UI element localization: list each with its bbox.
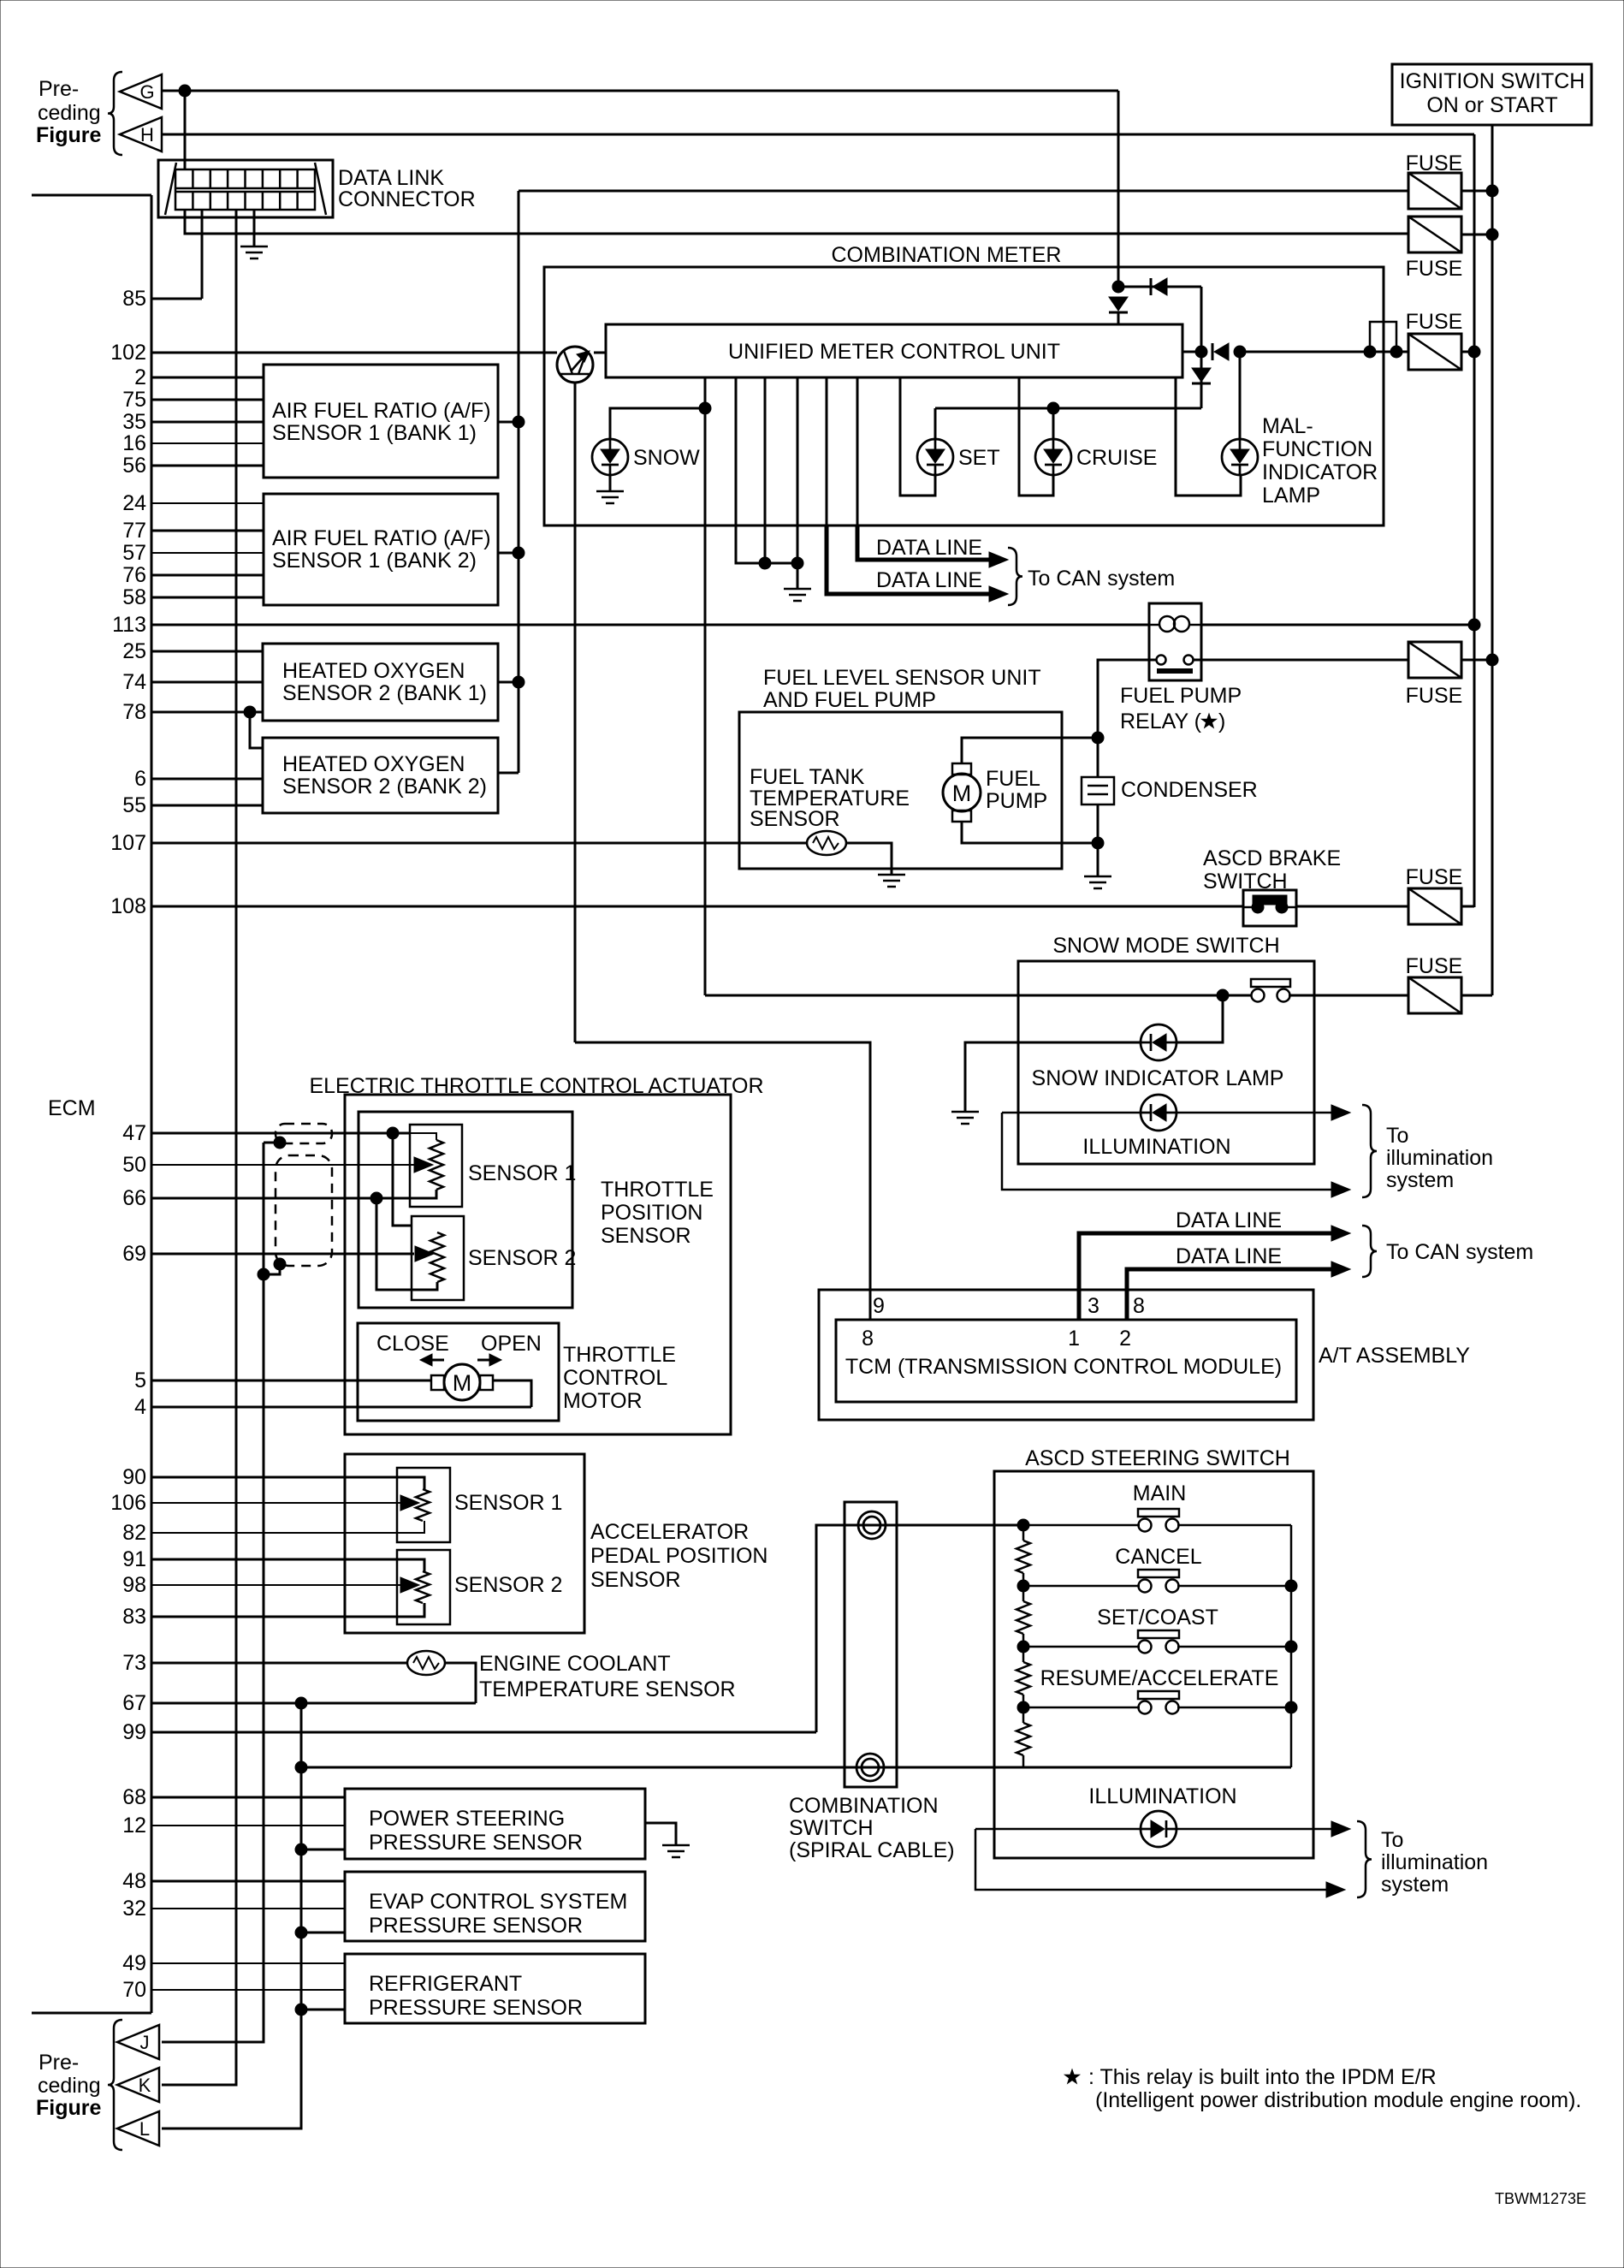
label throttle position sensor [601,1178,714,1248]
svg-text:6: 6 [134,767,146,791]
wire ECM pin 55 [151,804,263,807]
junction dot set right [1285,1641,1297,1653]
refrigerant pressure sensor box [345,1954,645,2023]
ECM control module box [32,195,151,2013]
wire diode to meter top [1117,313,1120,324]
wire ground bus power steering [301,1849,345,1851]
evap control system pressure sensor box [345,1872,645,1941]
svg-text:SET/COAST: SET/COAST [1097,1606,1218,1630]
label CONDENSER [1121,778,1258,802]
arrow open [477,1354,501,1366]
label DATA LINE TCM 2 [1176,1244,1282,1268]
wire G to junction [162,90,1118,92]
label ILLUMINATION snow [1082,1135,1230,1159]
svg-text:SENSOR 1: SENSOR 1 [468,1161,576,1185]
svg-text:illumination: illumination [1381,1850,1488,1874]
data line TCM 2 thick [1127,1269,1331,1320]
diode meter drop [1109,297,1128,312]
svg-text:PEDAL POSITION: PEDAL POSITION [590,1544,768,1568]
junction dot CRUISE feed [1047,402,1059,414]
switch RESUME [1138,1691,1179,1714]
wire ECM pin 113 [151,624,1149,626]
throttle sensor 1 wiper arrow [414,1157,433,1173]
wire ECM pin 56 [151,465,264,467]
snow indicator diode [1141,1024,1177,1060]
junction dot ground bus 2161 [295,1843,307,1855]
wire ECM pin 91 [151,1559,424,1561]
APP sensor 1 resistor [416,1489,430,1521]
label FUSE 2 [1406,257,1463,281]
wire 113 to relay right section [1201,624,1474,626]
wire ECM pin 32 [151,1908,345,1909]
wire fuse 6 to ignition feed [1461,994,1492,997]
diode to meter backup [1151,278,1167,295]
ignition switch box [1392,64,1591,125]
illumination diode ascd [1141,1811,1177,1847]
brace to illumination snow [1362,1105,1377,1197]
APP sensor 1 box [397,1468,450,1542]
fuse 2 [1408,217,1461,252]
wire ground bus refrigerant [301,2009,345,2011]
svg-text:CLOSE: CLOSE [376,1332,449,1356]
svg-text:SENSOR 1 (BANK 1): SENSOR 1 (BANK 1) [272,421,477,445]
svg-text:EVAP CONTROL SYSTEM: EVAP CONTROL SYSTEM [369,1890,627,1914]
svg-text:Pre-: Pre- [39,77,79,101]
wire snow switch feed [705,994,1252,997]
junction dot AF bank1 output [513,416,525,428]
accelerator pedal position sensor box [345,1454,584,1633]
svg-text:77: 77 [122,519,146,543]
svg-text:UNIFIED METER CONTROL UNIT: UNIFIED METER CONTROL UNIT [728,340,1060,364]
svg-text:16: 16 [122,431,146,455]
svg-text:MOTOR: MOTOR [563,1389,643,1413]
svg-text:55: 55 [122,793,146,817]
svg-text:PRESSURE SENSOR: PRESSURE SENSOR [369,1914,583,1938]
svg-text:SENSOR: SENSOR [601,1224,691,1248]
wire meter ground branch 2 [764,377,767,563]
arrow data line meter 1 [989,552,1008,567]
wire RESUME row [1028,1707,1291,1709]
svg-text:: This relay is built into the: : This relay is built into the IPDM E/R [1088,2065,1437,2089]
label APP SENSOR 2 [454,1573,562,1597]
svg-text:AIR FUEL RATIO (A/F): AIR FUEL RATIO (A/F) [272,399,491,423]
throttle sensor 2 resistor [430,1232,444,1282]
throttle position sensor inner box [359,1112,572,1308]
wire ECM pin 70 [151,1989,345,1991]
wire pin 78 branch to bank 2 box [250,712,263,748]
label TCM pin 8 inner [862,1327,874,1351]
wire shield 2 drain [264,1264,280,1274]
wire shield 1 drain [264,1142,280,1144]
wire HO2 bank2 output [498,772,519,775]
wire illumination ascd row [975,1828,1331,1831]
junction dot throttle common [370,1192,382,1204]
shield dashed pins 50 66 69 [276,1155,332,1266]
svg-text:system: system [1381,1873,1449,1897]
svg-text:SENSOR 2 (BANK 1): SENSOR 2 (BANK 1) [282,681,487,705]
wire ECM pin 75 [151,399,264,401]
svg-text:FUEL LEVEL SENSOR UNIT: FUEL LEVEL SENSOR UNIT [763,666,1041,690]
wire lamp feed row [935,407,1201,410]
wire G vertical [1117,91,1120,287]
wire SET lamp top [934,408,937,439]
shield dashed pin 47 [276,1124,332,1143]
brace to illumination ascd [1357,1821,1372,1897]
wire motor pin 4 [493,1380,531,1407]
junction dot pin 78 branch [244,706,256,718]
label TCM pin 1 inner [1068,1327,1080,1351]
svg-text:SENSOR: SENSOR [750,807,840,831]
svg-text:DATA LINE: DATA LINE [876,568,982,592]
junction dot jumper right [1390,346,1402,358]
svg-text:AND FUEL PUMP: AND FUEL PUMP [763,688,936,712]
wire relay contact to fuse 4 [1193,659,1408,662]
svg-text:68: 68 [122,1785,146,1809]
ground snow mode switch [951,1112,979,1124]
label To CAN system TCM [1386,1240,1533,1264]
junction dot HO2 bank1 output [513,676,525,688]
svg-text:HEATED OXYGEN: HEATED OXYGEN [282,752,465,776]
svg-text:OPEN: OPEN [481,1332,542,1356]
wire throttle common to sensor1 [376,1190,436,1198]
svg-text:J: J [140,2032,150,2053]
svg-text:107: 107 [110,831,146,855]
connector triangle H [120,117,162,151]
power steering pressure sensor box [345,1789,645,1859]
wire meter ground link [765,562,797,565]
wire meter vertical 1 [826,377,828,525]
svg-text:SET: SET [958,446,1000,470]
svg-text:78: 78 [122,700,146,724]
svg-text:SNOW: SNOW [633,446,700,470]
label ILLUMINATION ascd [1088,1784,1236,1808]
wire SET row [1028,1646,1291,1648]
svg-text:73: 73 [122,1651,146,1675]
svg-text:FUSE: FUSE [1406,954,1463,978]
wire snow lamp feed vertical [704,377,707,995]
label SNOW INDICATOR LAMP [1032,1066,1284,1090]
wire ECM pin 47 [151,1132,410,1135]
svg-text:To: To [1381,1828,1403,1852]
wire ECM pin 106 [151,1502,406,1504]
svg-text:48: 48 [122,1869,146,1893]
label air fuel ratio sensor 1 bank 2 [272,526,491,573]
svg-text:SNOW MODE SWITCH: SNOW MODE SWITCH [1052,934,1279,958]
ladder resistor 4 [1016,1723,1030,1755]
svg-text:SENSOR 2 (BANK 2): SENSOR 2 (BANK 2) [282,775,487,799]
svg-text:TEMPERATURE SENSOR: TEMPERATURE SENSOR [479,1677,736,1701]
arrow illumination snow 1 [1331,1105,1350,1120]
wire fuel pump feed [962,738,1098,763]
junction dot snow lamp feed [699,402,711,414]
junction dot shield 1 [274,1137,286,1149]
wire 82 internal [345,1521,424,1533]
wire illumination ascd loop [975,1829,1326,1890]
TCM box [836,1320,1296,1402]
label UNIFIED METER CONTROL UNIT [728,340,1060,364]
wire snow lamp to ground [609,475,612,491]
label FUSE 5 [1406,865,1463,889]
svg-text:illumination: illumination [1386,1146,1493,1170]
wire SET lamp U [900,377,935,496]
spiral cable symbol top [858,1511,886,1539]
label ASCD steering switch [1025,1446,1290,1470]
junction dot snow switch [1217,989,1229,1001]
label APP SENSOR 1 [454,1491,562,1515]
junction dot cancel right [1285,1580,1297,1592]
heated oxygen sensor 2 bank 2 box [263,738,498,813]
junction dot ladder 2 [1017,1580,1029,1592]
svg-text:66: 66 [122,1186,146,1210]
label Preceding Figure bottom [36,2051,101,2120]
svg-text:To CAN system: To CAN system [1028,567,1175,591]
junction dot ladder 3 [1017,1641,1029,1653]
svg-text:K: K [139,2075,151,2096]
wire ECM pin 66 [151,1197,376,1200]
wire ECM pin 25 [151,650,263,653]
wire MAIN row [1028,1524,1291,1527]
svg-text:THROTTLE: THROTTLE [601,1178,714,1202]
wire snow switch to fuse 6 [1289,994,1408,997]
svg-text:90: 90 [122,1465,146,1489]
wire meter vertical 2 [856,377,859,525]
air fuel ratio sensor 1 bank 2 box [264,494,498,605]
svg-text:56: 56 [122,454,146,478]
svg-text:76: 76 [122,563,146,587]
label To CAN system meter [1028,567,1175,591]
wire ECM pin 102 [151,352,557,354]
fuel level sensor unit box [739,712,1062,869]
svg-text:COMBINATION: COMBINATION [789,1794,939,1818]
wire fuse 3 to H feed [1461,351,1474,353]
wire ECM pin 107 [151,842,808,845]
label MAIN [1133,1481,1187,1505]
label combination switch spiral cable [789,1794,955,1862]
label FUSE 3 [1406,310,1463,334]
svg-text:57: 57 [122,541,146,565]
connector triangle K [117,2068,159,2102]
svg-text:(SPIRAL CABLE): (SPIRAL CABLE) [789,1838,955,1862]
svg-text:1: 1 [1068,1327,1080,1351]
diode meter pin [1212,343,1229,360]
wire throttle common to sensor2 [376,1198,437,1290]
wire DLC pin to ground [253,210,256,246]
svg-text:82: 82 [122,1521,146,1545]
svg-text:91: 91 [122,1547,146,1571]
switch CANCEL [1138,1570,1179,1593]
svg-text:75: 75 [122,388,146,412]
throttle sensor 1 resistor [430,1140,443,1190]
svg-text:CONTROL: CONTROL [563,1366,667,1390]
svg-text:M: M [952,781,972,806]
svg-text:SENSOR 1 (BANK 2): SENSOR 1 (BANK 2) [272,549,477,573]
junction dot ground bus 2065 [295,1761,307,1773]
junction dot ladder top [1017,1519,1029,1531]
H feed vertical [1473,134,1476,907]
svg-text:FUSE: FUSE [1406,684,1463,708]
svg-text:ON or START: ON or START [1426,93,1557,117]
wire DLC row to fuse 2 [185,233,1408,235]
wire ECM pin 16 [151,442,264,444]
heated oxygen sensor 2 bank 1 box [263,644,498,721]
wire gauge down [574,383,577,1042]
junction dot fuse 2 [1486,229,1498,240]
wire ECM pin 35 [151,421,264,424]
wire CRUISE lamp top [1052,408,1055,439]
wire ECM pin 78 [151,711,263,714]
throttle sensor 1 box [410,1125,462,1207]
svg-text:69: 69 [122,1242,146,1266]
arrow data line meter 2 [989,586,1008,602]
wire illumination snow row [1002,1112,1331,1114]
APP sensor 2 wiper arrow [400,1577,419,1593]
svg-text:ILLUMINATION: ILLUMINATION [1088,1784,1236,1808]
wire ground bus evap [301,1932,345,1934]
svg-text:8: 8 [1133,1294,1145,1318]
svg-text:CONDENSER: CONDENSER [1121,778,1258,802]
svg-text:47: 47 [122,1121,146,1145]
figure code TBWM1273E [1495,2190,1586,2207]
label TCM pin 9 [873,1294,885,1318]
label FUSE 1 [1406,151,1463,175]
svg-text:Figure: Figure [36,123,101,147]
svg-text:POSITION: POSITION [601,1201,702,1225]
svg-text:2: 2 [1119,1327,1131,1351]
junction dot AF bank2 output [513,547,525,559]
label TCM pin 8 outer [1133,1294,1145,1318]
wire ECM pin 49 [151,1962,345,1964]
snow mode switch box [1018,961,1314,1164]
ground fuel tank temp sensor [878,875,905,887]
label Preceding Figure top [36,77,101,147]
wire brake switch to fuse 5 [1296,905,1408,908]
AT assembly box [819,1290,1313,1420]
engine coolant temperature sensor symbol [407,1651,445,1675]
resistor ladder vertical segments [1022,1525,1025,1767]
fuse 4 [1408,642,1461,678]
wire ECM pin 57 [151,552,264,554]
svg-text:L: L [139,2118,150,2140]
junction dot MIL feed node [1234,346,1246,358]
junction dot ground bus 2258 [295,1927,307,1938]
label FUSE 6 [1406,954,1463,978]
label CANCEL [1115,1545,1202,1569]
fuse 3 [1408,334,1461,370]
gauge symbol speedometer input [557,347,593,383]
sensor output bus vertical [518,191,520,773]
label TCM pin 3 [1088,1294,1099,1318]
wire sensor bus to fuse 1 [519,190,1408,193]
label power steering pressure sensor [369,1807,583,1855]
svg-text:To CAN system: To CAN system [1386,1240,1533,1264]
throttle control motor box [358,1323,559,1421]
svg-text:DATA LINK: DATA LINK [338,166,444,190]
arrow illumination snow 2 [1331,1182,1350,1197]
svg-text:CONNECTOR: CONNECTOR [338,187,476,211]
wire diode row to meter [1118,287,1201,352]
wire HO2 bank1 output [498,681,519,684]
svg-text:SNOW INDICATOR LAMP: SNOW INDICATOR LAMP [1032,1066,1284,1090]
APP sensor 2 resistor [416,1571,430,1603]
junction dot ground bus top [295,1697,307,1709]
svg-text:25: 25 [122,639,146,663]
indicator lamp MIL [1222,439,1258,475]
svg-text:H: H [140,124,154,145]
wire DLC pin to ECM pin 85 [201,210,204,299]
wire fuse 4 to ignition feed [1461,659,1492,662]
svg-text:67: 67 [122,1691,146,1715]
svg-text:PRESSURE SENSOR: PRESSURE SENSOR [369,1996,583,2020]
label COMBINATION METER [832,243,1062,267]
wire AF bank2 output [498,552,519,555]
wire ECM pin 85 [151,298,202,300]
svg-text:THROTTLE: THROTTLE [563,1343,676,1367]
ECM label [48,1096,96,1120]
svg-text:FUSE: FUSE [1406,865,1463,889]
label malfunction indicator lamp [1262,414,1378,508]
connector triangle J [117,2025,159,2059]
snow mode switch contacts [1251,979,1290,1002]
label accelerator pedal position sensor [590,1520,768,1592]
wire throttle supply to sensor2 [393,1133,412,1226]
svg-text:SENSOR 1: SENSOR 1 [454,1491,562,1515]
ignition feed vertical [1491,125,1494,995]
throttle control motor [431,1364,493,1400]
fuse 5 [1408,888,1461,924]
label engine coolant temperature sensor [479,1652,736,1701]
wire pin 102 gauge to meter [594,352,606,354]
svg-text:COMBINATION METER: COMBINATION METER [832,243,1062,267]
wire ECM pin 68 [151,1796,345,1799]
ground bus vertical to L [162,1703,301,2128]
svg-text:INDICATOR: INDICATOR [1262,460,1378,484]
svg-text:3: 3 [1088,1294,1099,1318]
junction dot resume right [1285,1701,1297,1713]
wire snow diode to ground [965,1042,1141,1112]
svg-text:24: 24 [122,491,146,515]
condenser [1082,777,1114,804]
label heated oxygen sensor 2 bank 2 [282,752,487,799]
label TCM pin 2 inner [1119,1327,1131,1351]
wire ECM pin 108 [151,905,1243,908]
wire AF bank1 output [498,421,519,424]
svg-text:ACCELERATOR: ACCELERATOR [590,1520,749,1544]
junction dot fuse 3 [1468,346,1480,358]
svg-text:(Intelligent power distributio: (Intelligent power distribution module e… [1095,2088,1581,2112]
svg-text:LAMP: LAMP [1262,484,1320,508]
wire 90 internal [345,1477,424,1489]
svg-text:SENSOR: SENSOR [590,1568,681,1592]
svg-text:Figure: Figure [36,2096,101,2120]
wire DLC pin to connector K [162,210,236,2085]
wire ECM pin 2 [151,377,264,379]
diode lamp row [1192,368,1211,383]
wire fuse 1 to ignition feed [1461,190,1492,193]
svg-text:106: 106 [110,1491,146,1515]
arrow data line TCM 1 [1331,1226,1350,1241]
wire ground bus to combination switch [301,1766,1291,1769]
ASCD right bus [1290,1525,1293,1767]
wire CRUISE lamp U [1019,377,1053,496]
wire MIL top [1239,352,1242,439]
brace to CAN system meter [1008,548,1022,605]
junction dot fuel pump feed [1092,732,1104,744]
svg-text:ceding: ceding [38,101,101,125]
label CRUISE [1076,446,1157,470]
wire ECM pin 6 [151,778,263,781]
wire ECM pin 73 [151,1662,408,1665]
indicator lamp SNOW [592,439,628,475]
